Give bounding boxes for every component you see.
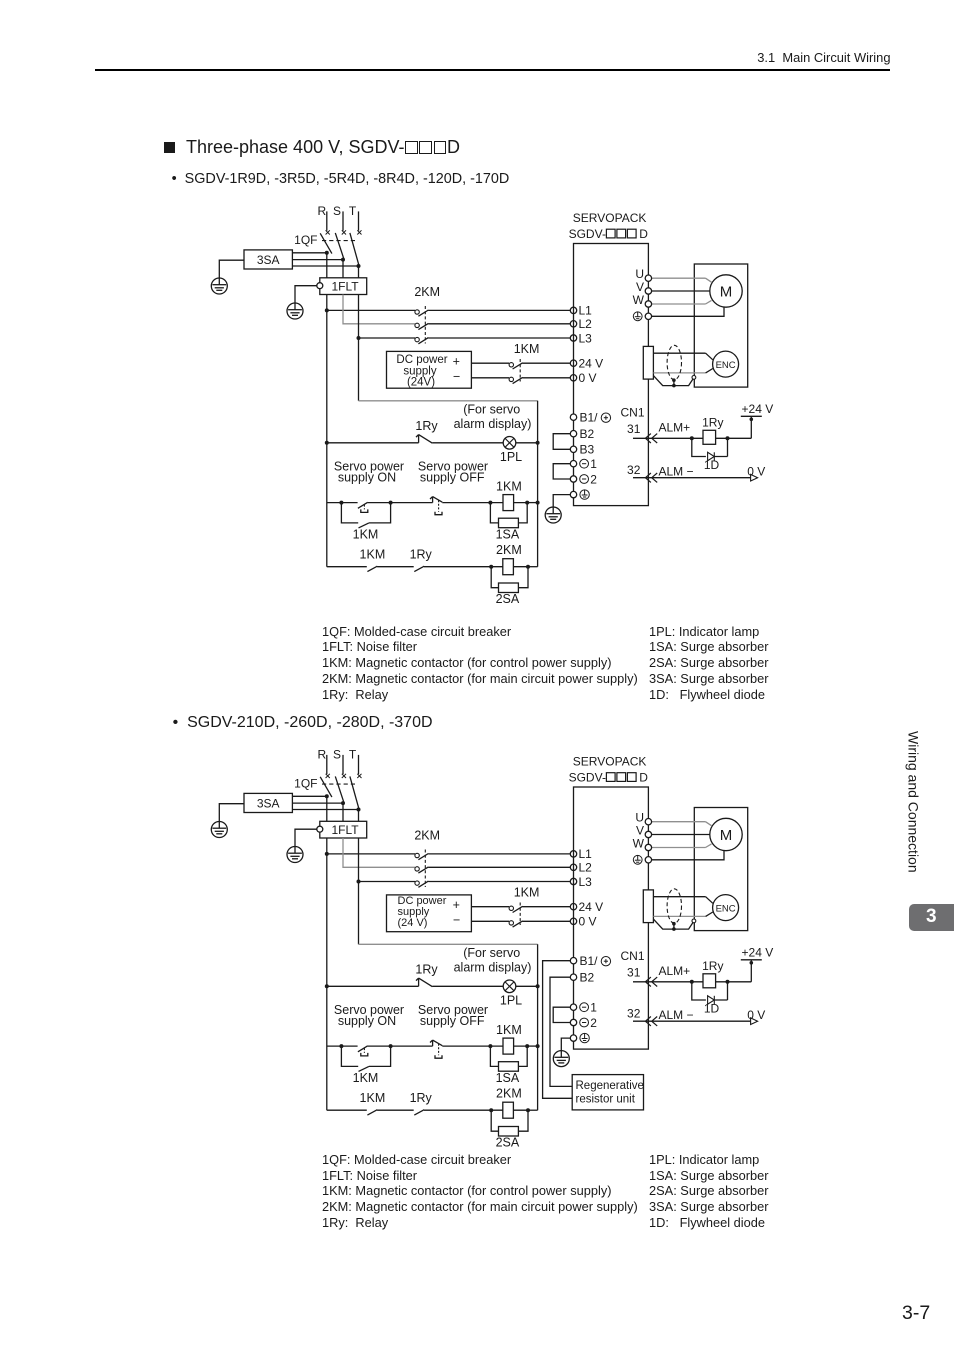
svg-text:DC power: DC power [398,895,447,907]
svg-text:(24 V): (24 V) [398,917,428,929]
svg-text:DC power: DC power [396,354,447,366]
svg-text:B3: B3 [580,443,595,457]
svg-text:(24V): (24V) [407,376,435,388]
svg-text:resistor unit: resistor unit [576,1093,636,1105]
svg-text:Regenerative: Regenerative [576,1080,644,1092]
